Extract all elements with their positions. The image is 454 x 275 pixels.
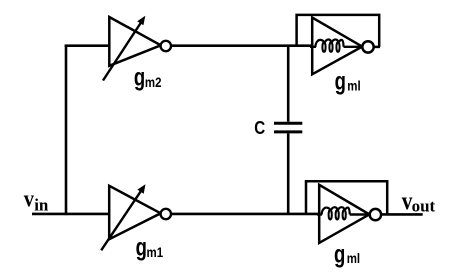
op-amp gm1 triangle [109,186,161,239]
svg-text:g: g [335,67,346,95]
svg-text:ml: ml [347,77,360,93]
bottom gml inductor coil [322,207,350,219]
svg-text:ml: ml [347,250,360,266]
wire: left vertical rail [65,45,68,216]
output bubble of gm1 [161,209,171,219]
arrow through gm2 (variable symbol) [103,16,145,81]
svg-text:C: C [254,118,265,139]
svg-text:g: g [134,63,145,91]
svg-text:in: in [34,195,49,214]
wire: gm1 output to bottom gml input [171,213,322,216]
bottom gml triangle [319,185,369,243]
output bubble of bottom gml [370,209,381,220]
wire: output to vout [381,213,423,216]
bottom gml feedback box [306,181,387,214]
arrow through gm1 (variable symbol) [101,184,145,250]
top gml input stub into triangle [310,46,316,48]
wire: gm2 output to top gml input [171,44,316,47]
bottom gml input stub into triangle [317,213,322,215]
wire: coil to top gml apex [344,46,362,48]
svg-text:g: g [136,233,147,261]
capacitor C bottom plate [274,130,302,133]
output bubble of gm2 [161,41,171,51]
wire: bottom horizontal from vin to gm1 input [32,213,111,216]
op-amp gm2 triangle [109,17,161,66]
wire: top horizontal from rail to gm2 input [65,44,111,47]
output bubble of top gml [362,41,373,52]
svg-text:g: g [334,240,345,268]
svg-text:out: out [412,196,436,215]
svg-text:m2: m2 [145,74,162,90]
wire: top gml bubble to box right edge [374,46,380,49]
top gml triangle [312,18,362,75]
capacitor C top plate [274,122,302,125]
top gml feedback box [297,15,380,47]
capacitor C bottom lead [287,133,290,214]
top gml inductor coil [315,39,343,51]
svg-text:v: v [24,185,35,212]
capacitor C top lead [287,46,290,122]
wire: coil to bottom gml apex [350,213,369,215]
svg-text:m1: m1 [147,244,164,260]
